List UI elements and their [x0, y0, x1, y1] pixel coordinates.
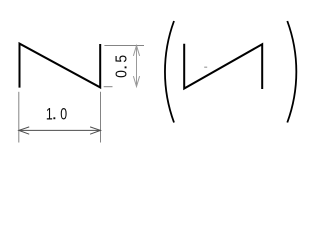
svg-text:5: 5 [114, 55, 131, 63]
svg-text:0: 0 [114, 70, 131, 78]
svg-text:1: 1 [46, 106, 53, 124]
svg-text:0: 0 [60, 106, 67, 124]
